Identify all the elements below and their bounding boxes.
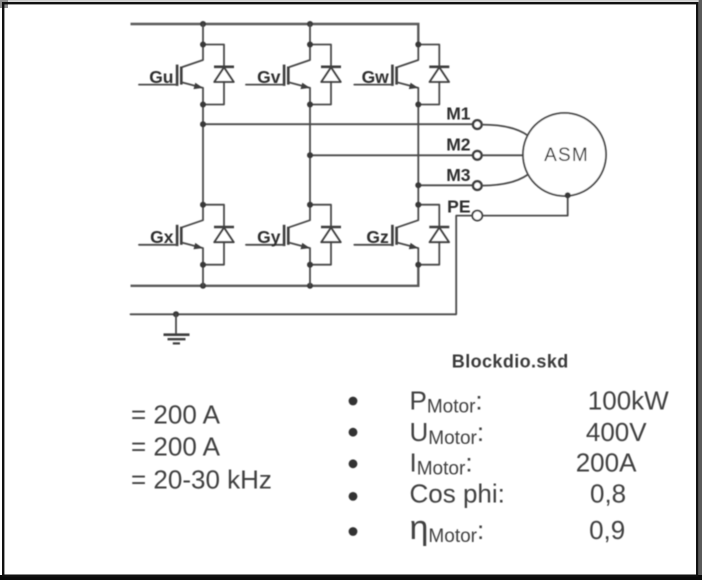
svg-text:Gx: Gx (150, 227, 174, 247)
svg-text:0,9: 0,9 (589, 515, 625, 545)
wire leg3 segments (417, 104, 419, 204)
svg-text:Gw: Gw (362, 67, 390, 87)
bullet 1 (349, 397, 358, 406)
node top bus / leg2 (307, 21, 313, 27)
wire M3 phase line (418, 184, 472, 186)
svg-text:Blockdio.skd: Blockdio.skd (452, 351, 569, 371)
wire M1 phase line (203, 123, 473, 125)
outer top-left gray square (0, 0, 8, 8)
svg-text:Gv: Gv (257, 67, 281, 87)
svg-text:PE: PE (447, 197, 470, 217)
node M1 / leg1 (200, 121, 206, 127)
terminal M2 (473, 151, 482, 160)
right gray strip (699, 0, 702, 580)
node motor frame / PE (565, 192, 571, 198)
ground (164, 314, 190, 343)
wire M2 phase line (310, 154, 473, 156)
svg-text:M2: M2 (446, 134, 471, 154)
wire M3 to motor curve (482, 175, 528, 186)
node top bus / leg1 (200, 21, 206, 27)
bullet 3 (349, 459, 358, 468)
transistor Gy (IGBT, bottom leg2) (246, 202, 341, 268)
bottom black bar (0, 575, 702, 580)
svg-text:M1: M1 (446, 104, 471, 124)
terminal PE (472, 211, 482, 221)
node M2 / leg2 (307, 152, 313, 158)
node ground tap (173, 311, 179, 317)
svg-text:200A: 200A (576, 448, 637, 478)
wire M1 to motor curve (482, 125, 528, 136)
wire leg2 segments (309, 24, 311, 286)
transistor Gx (IGBT, bottom leg1) (139, 202, 234, 268)
node M3 / leg3 (415, 182, 421, 188)
bullet 4 (349, 492, 358, 501)
transistor Gw (IGBT, top leg3) (354, 42, 449, 108)
terminal M3 (473, 181, 482, 190)
svg-text:Cos phi:: Cos phi: (410, 479, 505, 509)
node bottom bus / leg1 (200, 283, 206, 289)
wire DC+ top bus (131, 24, 419, 45)
outer top light strip (0, 0, 698, 2)
bullet 5 (349, 527, 358, 536)
svg-text:Gz: Gz (366, 227, 389, 247)
svg-text:400V: 400V (586, 417, 647, 447)
node bottom bus / leg2 (307, 283, 313, 289)
svg-text:ASM: ASM (544, 145, 589, 166)
transistor Gv (IGBT, top leg2) (246, 42, 341, 108)
bullet 2 (349, 428, 358, 437)
wire leg1 segments (202, 24, 204, 286)
wire PE return line (131, 216, 472, 315)
svg-text:M3: M3 (446, 165, 471, 185)
transistor Gu (IGBT, top leg1) (139, 42, 234, 108)
wire M2 to motor (482, 154, 523, 156)
svg-text:0,8: 0,8 (590, 479, 626, 509)
wire DC- bottom bus (131, 264, 419, 285)
terminal M1 (473, 120, 482, 129)
svg-text:= 200 A: = 200 A (131, 431, 221, 461)
svg-text:Gu: Gu (149, 67, 173, 87)
svg-text:= 20-30 kHz: = 20-30 kHz (131, 465, 272, 495)
svg-text:Gy: Gy (257, 227, 281, 247)
svg-text:= 200 A: = 200 A (131, 399, 221, 429)
transistor Gz (IGBT, bottom leg3) (354, 202, 449, 268)
wire PE to motor frame (483, 195, 568, 215)
svg-text:100kW: 100kW (588, 385, 669, 415)
motor ASM circle (523, 113, 606, 196)
